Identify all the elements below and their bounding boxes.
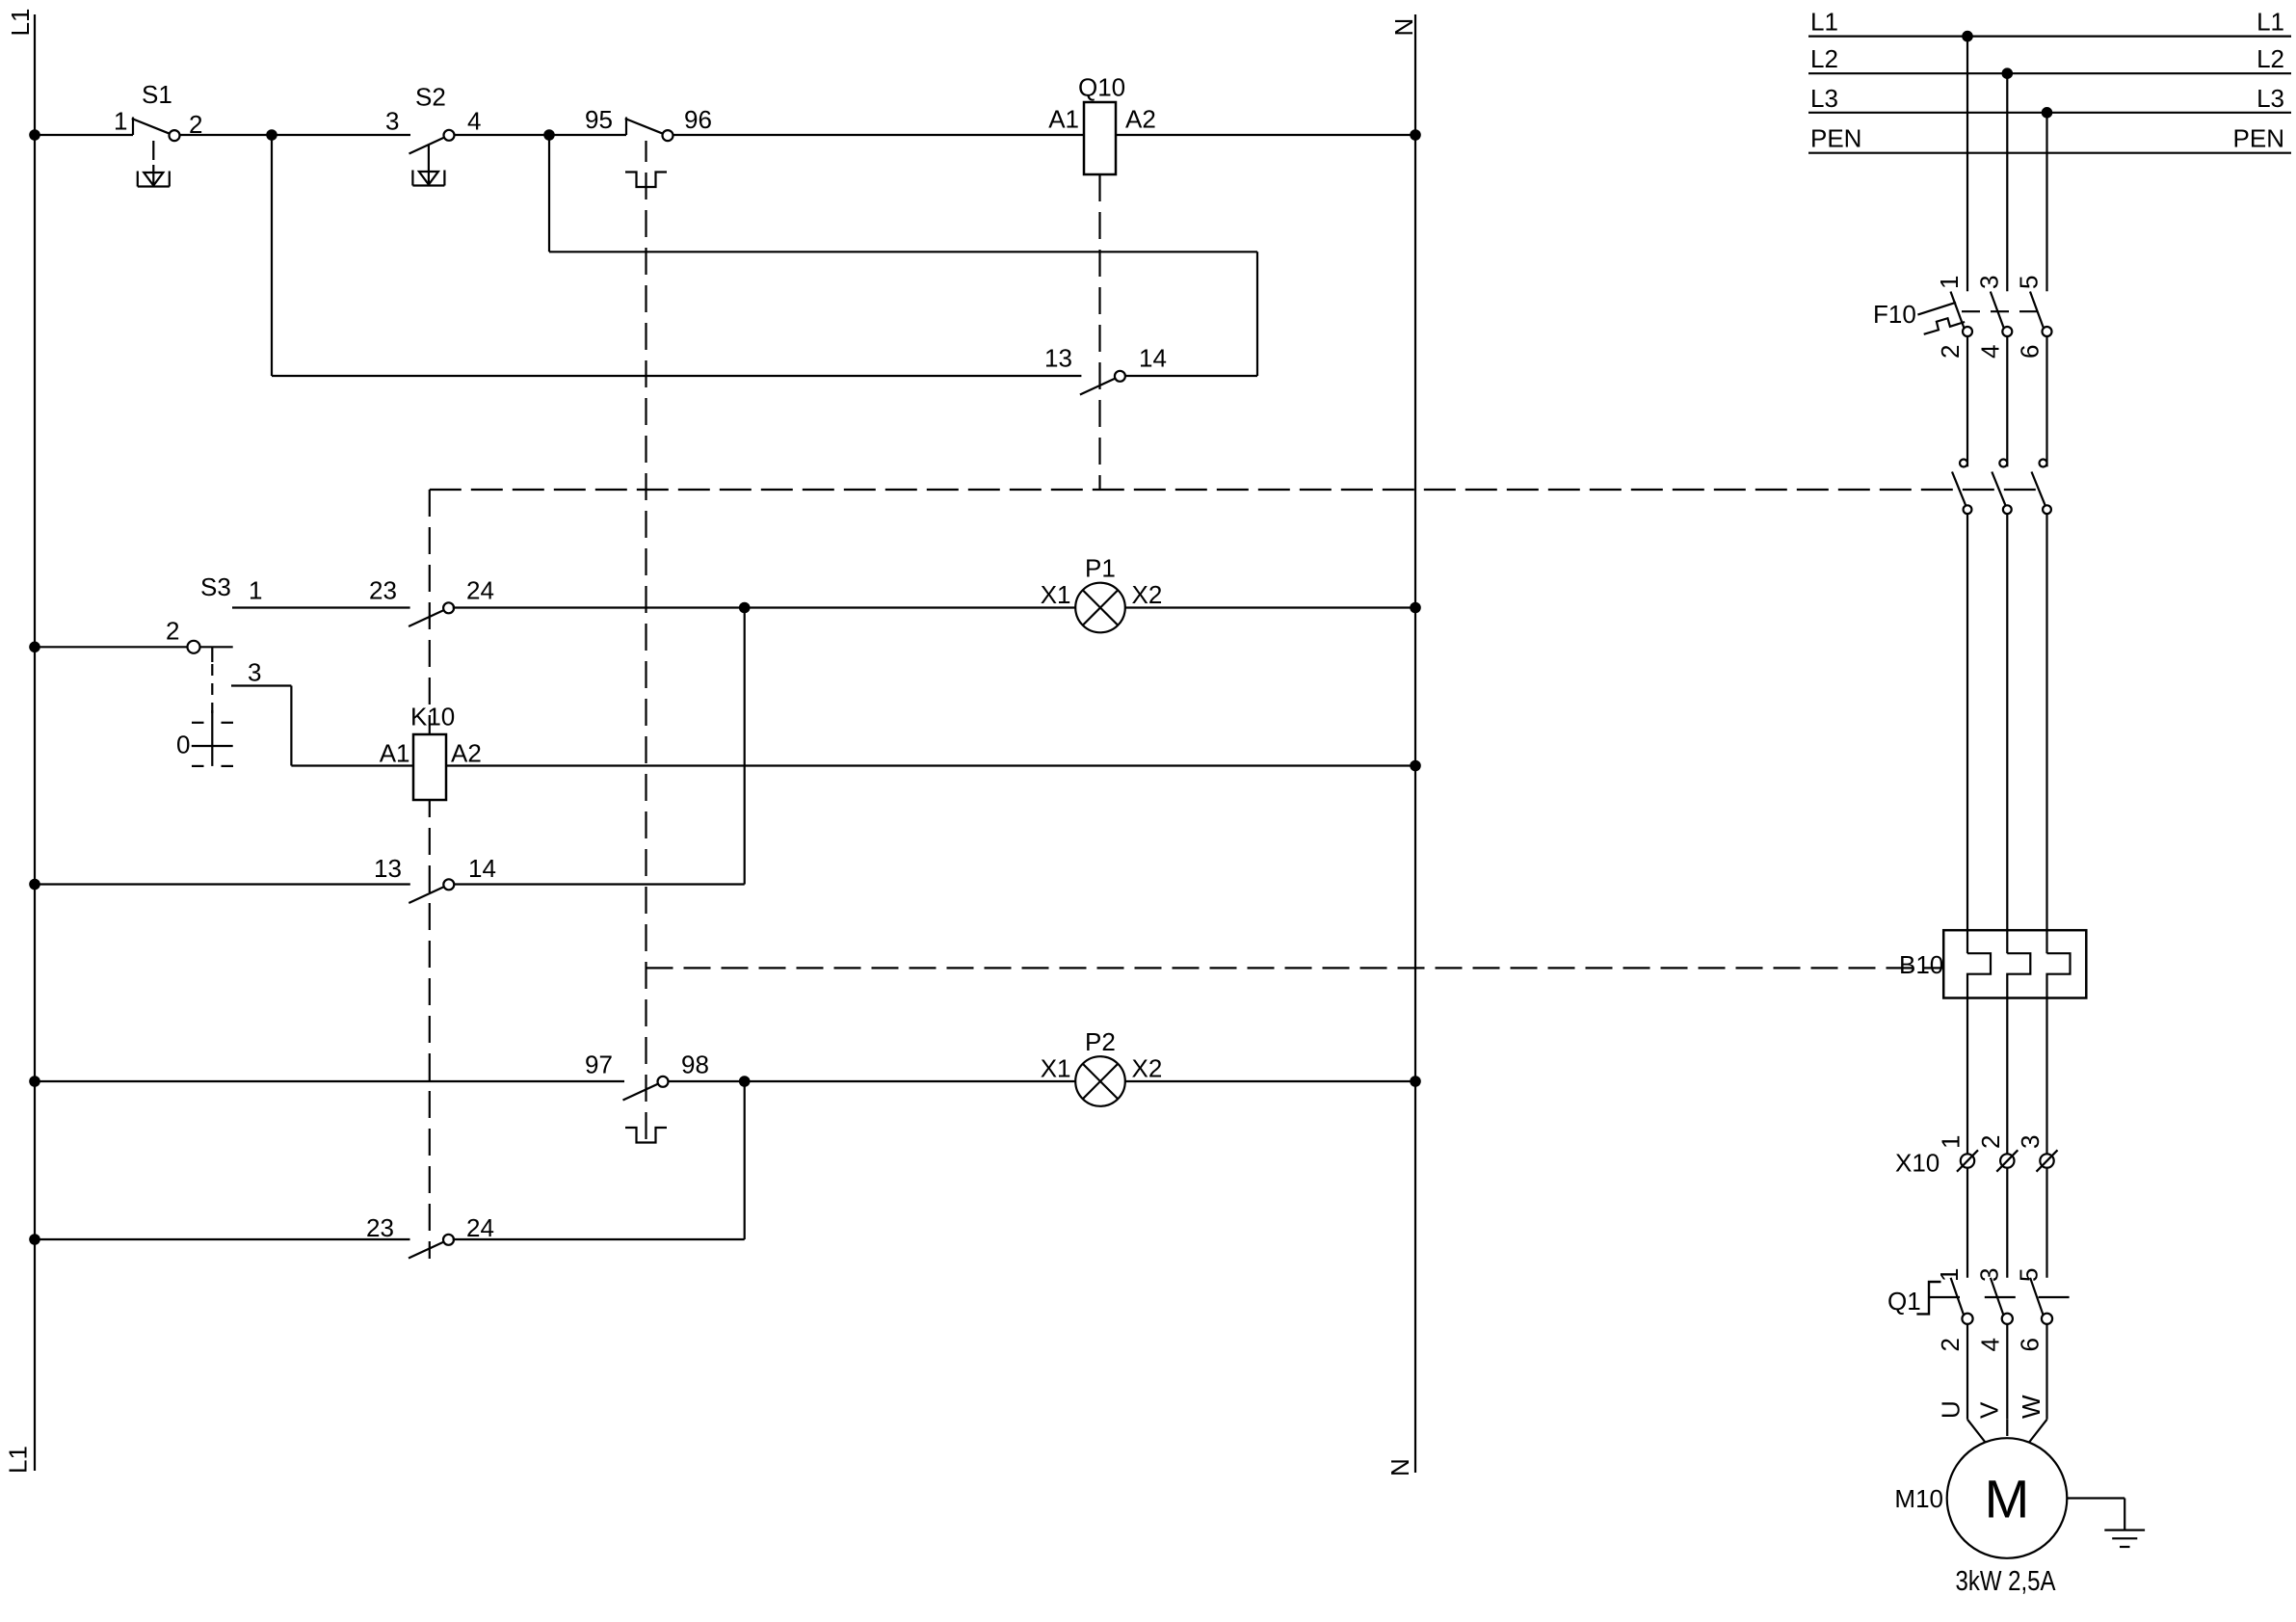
svg-text:3: 3 xyxy=(1974,1268,2003,1282)
svg-text:1: 1 xyxy=(1937,1135,1966,1149)
svg-text:K10: K10 xyxy=(410,703,455,731)
svg-text:14: 14 xyxy=(1139,344,1167,373)
svg-text:4: 4 xyxy=(1975,1338,2004,1351)
svg-text:L1: L1 xyxy=(6,9,35,37)
svg-text:M: M xyxy=(1985,1469,2030,1529)
svg-text:24: 24 xyxy=(466,576,494,605)
svg-text:B10: B10 xyxy=(1899,950,1943,979)
svg-text:X2: X2 xyxy=(1132,1054,1163,1083)
svg-text:U: U xyxy=(1936,1400,1965,1419)
svg-text:4: 4 xyxy=(1975,345,2004,359)
svg-text:L1: L1 xyxy=(4,1446,33,1474)
svg-text:L3: L3 xyxy=(1810,84,1838,113)
svg-text:24: 24 xyxy=(466,1213,494,1242)
svg-text:95: 95 xyxy=(585,105,613,134)
svg-text:1: 1 xyxy=(114,107,127,136)
svg-text:P2: P2 xyxy=(1085,1027,1116,1056)
svg-text:14: 14 xyxy=(468,854,496,883)
svg-text:X10: X10 xyxy=(1895,1149,1940,1178)
svg-text:PEN: PEN xyxy=(1810,124,1861,153)
svg-text:L1: L1 xyxy=(1810,8,1838,37)
svg-text:3kW 2,5A: 3kW 2,5A xyxy=(1956,1566,2057,1597)
svg-text:S1: S1 xyxy=(142,80,172,109)
svg-text:97: 97 xyxy=(585,1050,613,1079)
svg-text:X1: X1 xyxy=(1041,580,1071,609)
svg-text:X2: X2 xyxy=(1132,580,1163,609)
svg-text:6: 6 xyxy=(2016,345,2045,359)
svg-text:A2: A2 xyxy=(1125,105,1156,134)
svg-text:1: 1 xyxy=(249,576,262,605)
svg-text:M10: M10 xyxy=(1894,1484,1943,1513)
svg-text:98: 98 xyxy=(681,1050,709,1079)
svg-text:S3: S3 xyxy=(200,572,231,601)
svg-text:A1: A1 xyxy=(380,739,410,768)
svg-text:6: 6 xyxy=(2016,1338,2045,1351)
svg-text:S2: S2 xyxy=(415,83,446,112)
svg-text:Q10: Q10 xyxy=(1078,73,1125,102)
svg-text:PEN: PEN xyxy=(2233,124,2284,153)
svg-text:2: 2 xyxy=(189,110,202,139)
svg-text:3: 3 xyxy=(1974,276,2003,289)
svg-text:2: 2 xyxy=(166,617,179,646)
svg-text:3: 3 xyxy=(385,107,399,136)
svg-text:A2: A2 xyxy=(451,739,482,768)
svg-text:23: 23 xyxy=(369,576,397,605)
svg-text:1: 1 xyxy=(1935,1268,1964,1282)
svg-text:Q1: Q1 xyxy=(1887,1287,1921,1316)
svg-text:F10: F10 xyxy=(1873,300,1916,329)
svg-text:2: 2 xyxy=(1936,1338,1965,1351)
svg-text:13: 13 xyxy=(1044,344,1072,373)
svg-text:4: 4 xyxy=(467,107,481,136)
svg-text:V: V xyxy=(1975,1401,2004,1419)
svg-text:2: 2 xyxy=(1936,345,1965,359)
svg-text:W: W xyxy=(2017,1395,2045,1419)
svg-text:N: N xyxy=(1389,18,1418,37)
svg-text:5: 5 xyxy=(2015,276,2044,289)
svg-text:L1: L1 xyxy=(2256,8,2284,37)
svg-text:L2: L2 xyxy=(2256,44,2284,73)
svg-text:5: 5 xyxy=(2015,1268,2044,1282)
svg-text:13: 13 xyxy=(374,854,402,883)
svg-text:P1: P1 xyxy=(1085,554,1116,583)
svg-text:23: 23 xyxy=(366,1213,394,1242)
svg-text:3: 3 xyxy=(248,658,261,687)
svg-text:0: 0 xyxy=(176,731,190,759)
svg-text:X1: X1 xyxy=(1041,1054,1071,1083)
svg-text:L2: L2 xyxy=(1810,44,1838,73)
svg-text:96: 96 xyxy=(684,105,712,134)
svg-text:L3: L3 xyxy=(2256,84,2284,113)
svg-text:1: 1 xyxy=(1935,276,1964,289)
svg-text:2: 2 xyxy=(1976,1135,2005,1149)
svg-text:3: 3 xyxy=(2016,1135,2045,1149)
svg-text:N: N xyxy=(1386,1458,1414,1476)
svg-text:A1: A1 xyxy=(1048,105,1079,134)
